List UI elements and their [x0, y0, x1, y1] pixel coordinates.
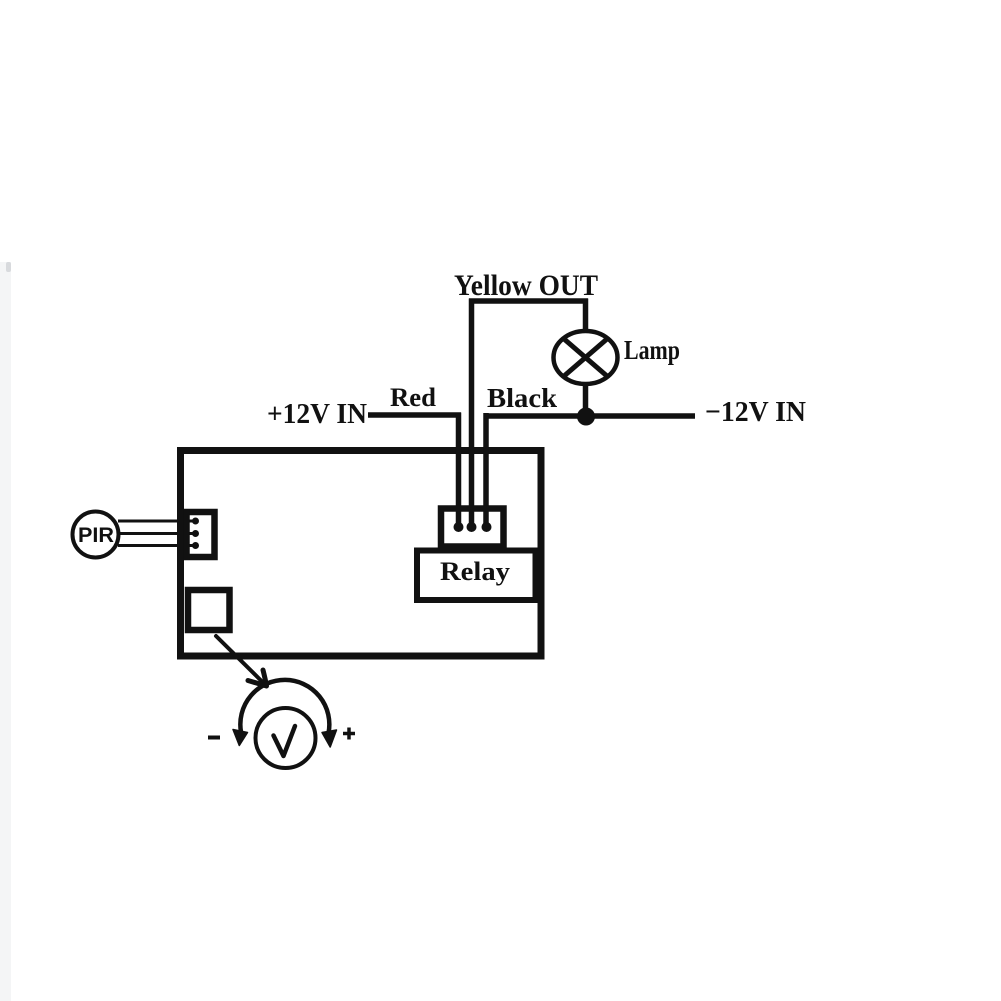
wire lamp stem top: [583, 299, 589, 333]
meter circle: [256, 708, 316, 768]
wire black horizontal to -12V: [484, 413, 696, 419]
relay box: [417, 551, 536, 601]
pin 2: [467, 522, 477, 532]
pin 1: [454, 522, 464, 532]
arrow to meter: [216, 636, 267, 686]
PIR pin dot 3: [192, 542, 199, 549]
module board outline: [181, 451, 542, 657]
svg-text:−12V IN: −12V IN: [705, 396, 806, 428]
arc arrowhead left: [233, 730, 248, 746]
arc arrowhead right: [322, 730, 337, 747]
wire lamp stem bottom: [583, 384, 589, 418]
PIR sensor circle: [73, 512, 119, 558]
PIR pin dot 1: [192, 518, 199, 525]
pin 3: [482, 522, 492, 532]
connector header box (3-pin): [441, 509, 504, 547]
wire yellow vertical: [469, 299, 475, 528]
PIR pin dot 2: [192, 530, 199, 537]
rotation arc: [240, 680, 329, 733]
svg-text:+12V IN: +12V IN: [267, 398, 367, 430]
wire black vertical: [483, 413, 489, 527]
minus label: [208, 736, 220, 740]
junction node: [577, 408, 595, 426]
PIR wire 2: [118, 532, 195, 535]
lamp symbol: [554, 331, 618, 384]
PIR connector box on module: [187, 512, 215, 557]
wire red vertical: [456, 413, 462, 528]
svg-text:Black: Black: [487, 383, 557, 413]
PIR wire 1: [118, 520, 195, 523]
svg-text:Lamp: Lamp: [624, 335, 680, 365]
svg-text:Relay: Relay: [440, 557, 510, 586]
svg-text:Red: Red: [390, 383, 437, 412]
PIR wire 3: [118, 544, 195, 547]
meter V mark: [274, 726, 296, 756]
trimmer box (potentiometer): [188, 590, 230, 630]
svg-text:PIR: PIR: [78, 524, 114, 547]
wire yellow top horizontal: [469, 298, 588, 304]
svg-text:Yellow OUT: Yellow OUT: [454, 269, 598, 302]
plus label: [343, 728, 355, 740]
wire +12V horizontal (red): [368, 412, 461, 418]
